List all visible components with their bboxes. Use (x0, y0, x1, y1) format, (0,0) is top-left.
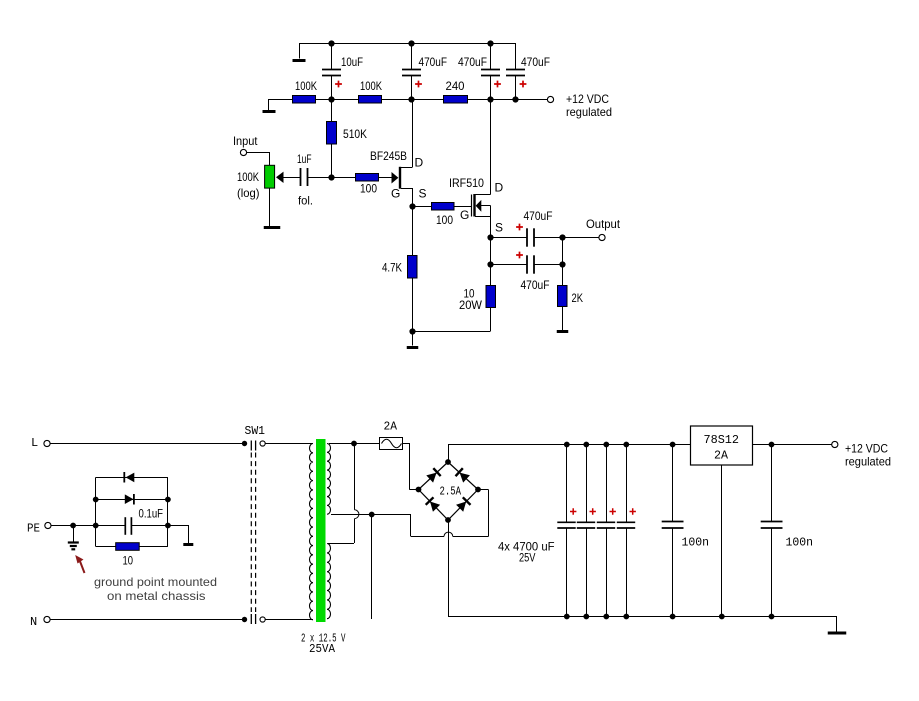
resistor R1 100K (293, 79, 318, 103)
switch SW1 linkage (dashed) (251, 453, 255, 613)
wire to Output terminal (562, 237, 599, 239)
svg-text:2.5A: 2.5A (440, 485, 462, 499)
wire fuse to bridge AC1 (403, 443, 419, 490)
polarity + of C9 (570, 508, 576, 514)
transformer T1 secondary winding lower (327, 544, 331, 619)
wire L to switch (50, 443, 245, 445)
transformer T1 primary winding (309, 444, 313, 620)
resistor R6 100 (432, 203, 455, 228)
svg-text:25VA: 25VA (309, 642, 336, 656)
capacitor C5 1uF (297, 152, 313, 208)
wire AC2 path from centre tap (hops over DC- wire) (411, 490, 489, 537)
svg-text:ground point mounted: ground point mounted (94, 575, 217, 589)
svg-text:D: D (495, 181, 504, 195)
svg-text:10: 10 (123, 554, 134, 568)
wire centre tap to N rail (371, 514, 373, 619)
svg-text:100n: 100n (786, 536, 814, 550)
ground (R7 bottom) (407, 331, 419, 348)
svg-text:100: 100 (360, 182, 377, 196)
capacitor C10 4700uF (577, 442, 595, 620)
svg-text:(log): (log) (237, 186, 260, 200)
capacitor C13 100n (662, 442, 709, 620)
node R8 top / C7 (487, 261, 493, 267)
svg-text:0.1uF: 0.1uF (139, 507, 164, 521)
node top bus / C2 (408, 40, 414, 46)
svg-text:25V: 25V (519, 551, 536, 565)
svg-text:on metal chassis: on metal chassis (107, 589, 206, 603)
svg-text:78S12: 78S12 (704, 433, 740, 447)
label 2.5A (440, 485, 462, 499)
svg-text:100K: 100K (295, 79, 317, 93)
svg-text:G: G (391, 187, 400, 201)
resistor R4 510K (327, 99, 368, 177)
svg-text:Output: Output (586, 217, 621, 231)
node gate network Q1 (328, 174, 334, 180)
bridge rectifier B1 frame (419, 462, 479, 520)
terminal Input (240, 149, 246, 155)
label 2 x 12.5 V / 25VA (301, 632, 346, 657)
wire right vertical of protection network (167, 477, 169, 546)
node output (559, 234, 565, 240)
transistor Q2 IRF510 (MOSFET) (449, 99, 504, 235)
wire wiper to C5 (284, 177, 301, 179)
wire DC+ rail (448, 444, 832, 446)
node switch L (242, 441, 247, 446)
svg-text:100n: 100n (682, 536, 710, 550)
diode D1 (points left) (96, 472, 168, 483)
wire Q2 source down (490, 216, 492, 238)
svg-text:L: L (31, 436, 38, 450)
svg-text:fol.: fol. (298, 194, 313, 208)
bridge diode top-left (426, 468, 441, 483)
wire C5 to gate node (308, 177, 332, 179)
node D2 right (165, 497, 171, 503)
regulator U1 78S12 (691, 426, 753, 465)
bridge diode top-right (456, 468, 471, 483)
wire C6 to output node (534, 237, 562, 239)
wire switch L to transformer/fuse (265, 443, 312, 445)
svg-text:1uF: 1uF (297, 152, 312, 166)
capacitor C6 470uF (524, 209, 553, 247)
polarity + of C3 (494, 81, 501, 88)
svg-text:470uF: 470uF (419, 55, 448, 69)
wire PE row (51, 525, 125, 527)
fuse F1 2A (380, 420, 403, 450)
svg-text:4.7K: 4.7K (382, 261, 402, 275)
wire U1 ground pin (719, 465, 725, 620)
node PE ground (70, 523, 76, 529)
capacitor C1 10uF (322, 43, 363, 99)
capacitor C12 4700uF (617, 442, 635, 620)
node Q1 source (409, 203, 415, 209)
svg-text:+12 VDC: +12 VDC (845, 442, 888, 456)
polarity + of C11 (610, 508, 616, 514)
node 0V junction (409, 328, 415, 334)
transformer T1 secondary winding upper (327, 443, 331, 514)
transformer T1 core (316, 439, 326, 622)
polarity + of C6 (516, 224, 523, 231)
node top bus / C3 (487, 40, 493, 46)
svg-text:470uF: 470uF (521, 278, 550, 292)
wire node to R5 (331, 177, 356, 179)
svg-text:510K: 510K (343, 127, 367, 141)
wire 0V rail (448, 616, 837, 618)
polarity + of C7 (516, 252, 523, 259)
wire output row 1 (491, 238, 527, 265)
terminal N (44, 616, 50, 622)
ground (potentiometer) (264, 226, 281, 229)
switch SW1 pole N (251, 614, 265, 624)
ground (metal chassis) (183, 543, 193, 546)
resistor R5 100 (356, 174, 379, 196)
terminal +12 VDC regulated (bottom) (832, 441, 891, 468)
svg-text:regulated: regulated (566, 105, 612, 119)
switch SW1 pole L (245, 424, 266, 451)
node rail/C3/Q2 drain (487, 96, 493, 102)
wire N to switch (50, 619, 245, 621)
bridge diode bottom-left (426, 497, 441, 512)
resistor R8 10 20W (459, 265, 496, 332)
svg-text:100K: 100K (360, 79, 382, 93)
wire parallel link (hops over centre tap) (328, 444, 359, 544)
node PE / left branch (93, 523, 99, 529)
ground (left end of rail) (263, 99, 276, 112)
node rail/510K (328, 96, 334, 102)
wire cap to right node (131, 525, 168, 527)
wire switch N to transformer (265, 619, 313, 621)
label N (30, 615, 37, 629)
terminal Output (586, 217, 621, 241)
wire bridge bottom to 0V rail (448, 520, 450, 616)
svg-text:20W: 20W (459, 298, 483, 312)
capacitor C9 4700uF (557, 442, 575, 620)
terminal L (44, 440, 50, 446)
wire C7 to 2K node (534, 264, 562, 266)
svg-text:IRF510: IRF510 (449, 176, 484, 190)
wire left vertical of protection network (95, 477, 97, 546)
svg-text:N: N (30, 615, 37, 629)
node bridge bottom (DC-) (445, 517, 451, 523)
polarity + of C4 (520, 81, 527, 88)
svg-text:D: D (415, 156, 424, 170)
terminal PE (45, 522, 51, 528)
wire +12V rail (y=99) (268, 99, 547, 101)
polarity + of C2 (415, 81, 422, 88)
wire output row 2 (491, 238, 563, 265)
wire input to potentiometer (247, 152, 270, 165)
node 2K top (559, 261, 565, 267)
node D2 left (93, 497, 99, 503)
svg-text:2A: 2A (714, 449, 729, 463)
polarity + of C1 (335, 81, 342, 88)
svg-text:G: G (460, 208, 469, 222)
svg-text:PE: PE (27, 522, 40, 536)
svg-text:regulated: regulated (845, 455, 891, 469)
capacitor C11 4700uF (597, 442, 615, 620)
polarity + of C12 (630, 508, 636, 514)
node secondary parallel link top (351, 441, 357, 447)
svg-text:+12 VDC: +12 VDC (566, 92, 609, 106)
wire top supply bus (y=43) (299, 43, 516, 45)
svg-text:2A: 2A (384, 420, 398, 434)
resistor R3 240 (444, 79, 468, 103)
svg-text:470uF: 470uF (524, 209, 553, 223)
svg-text:10uF: 10uF (341, 55, 363, 69)
transistor Q1 BF245B (JFET) (370, 99, 427, 207)
capacitor C8 0.1uF (125, 507, 163, 535)
label L (31, 436, 38, 450)
node bridge right (AC2) (475, 487, 481, 493)
node switch N (242, 617, 247, 622)
resistor R7 4.7K (382, 207, 417, 332)
capacitor C4 470uF (506, 43, 550, 99)
ground (top-left of supply bus) (293, 43, 306, 61)
wire 0V junction to R8 (412, 331, 491, 333)
wire bridge top to DC+ rail (448, 444, 450, 462)
terminal +12 VDC regulated (top) (547, 92, 612, 119)
annotation arrow (dark red) (75, 555, 84, 573)
wire R6 to Q2 gate (454, 206, 471, 208)
svg-text:BF245B: BF245B (370, 149, 407, 163)
ground (R9 bottom) (557, 330, 569, 333)
node top bus / C1 (328, 40, 334, 46)
wire pot bottom to ground (269, 188, 271, 226)
svg-text:240: 240 (446, 79, 465, 93)
label ground point mounted on metal chassis (94, 575, 217, 603)
diode D2 (points right) (96, 494, 168, 505)
bridge diode bottom-right (456, 497, 471, 512)
svg-text:Input: Input (233, 134, 258, 148)
node bridge left (AC1) (416, 487, 422, 493)
capacitor C3 470uF (458, 43, 500, 99)
wire to chassis ground right (168, 525, 189, 543)
capacitor C2 470uF (402, 43, 447, 99)
svg-text:SW1: SW1 (245, 424, 266, 438)
svg-text:100: 100 (436, 213, 453, 227)
wire secondary top to fuse (329, 443, 379, 445)
svg-text:470uF: 470uF (521, 55, 550, 69)
ground (0V rail, output) (828, 616, 847, 633)
capacitor C7 470uF (521, 255, 550, 292)
wire Q1 source to R6 (412, 206, 432, 208)
node bridge top (DC+) (445, 459, 451, 465)
potentiometer P1 100K log (237, 165, 284, 200)
polarity + of C10 (590, 508, 596, 514)
earth ground (PE, chassis ground point) (68, 525, 79, 549)
label 4x 4700 uF / 25V (498, 540, 555, 565)
node Q2 source / C6 (487, 234, 493, 240)
capacitor C14 100n (761, 442, 813, 620)
node cap right (165, 523, 171, 529)
svg-text:2K: 2K (572, 291, 584, 305)
node centre tap / N link (369, 512, 375, 518)
node rail/C4 (512, 96, 518, 102)
resistor R9 2K (558, 265, 584, 331)
svg-text:470uF: 470uF (458, 55, 487, 69)
label PE (27, 522, 40, 536)
node rail/C2/Q1 drain (408, 96, 414, 102)
svg-text:S: S (495, 221, 503, 235)
wire centre tap (331, 514, 411, 516)
wire R5 to Q1 gate (379, 177, 392, 179)
resistor R10 10 (96, 543, 168, 568)
label Input (233, 134, 258, 148)
svg-text:100K: 100K (237, 170, 259, 184)
resistor R2 100K (359, 79, 383, 103)
svg-text:S: S (419, 187, 427, 201)
